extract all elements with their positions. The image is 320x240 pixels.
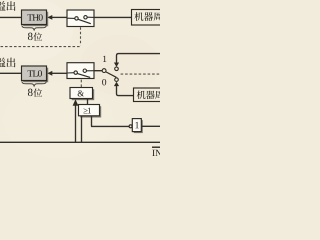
wire: switch S1 to machine cycle box xyxy=(94,16,132,18)
label: selector position 1 (counter, T0 pin) xyxy=(103,56,106,62)
label: overflow output (top, 溢出) xyxy=(0,1,15,11)
label: overflow output (middle, 溢出) xyxy=(0,58,15,68)
inverter U3 (1 with input bubble) on GATE line xyxy=(129,119,143,134)
box: machine cycle source (top, 机器周期) xyxy=(132,10,163,26)
wire with arrow: TR0 into AND gate xyxy=(73,99,79,142)
brace: TH0 is 8 bits xyxy=(22,25,47,30)
dashed wire: AND gate output controls switch S2 xyxy=(80,80,82,88)
wire with arrow into TH0 right side xyxy=(47,15,67,20)
register TL0 xyxy=(22,66,49,82)
wire with arrow into TL0 right side xyxy=(47,71,67,76)
switch S1: count enable for TH0 (controlled by TR1) xyxy=(67,10,94,27)
wire: TR0 / INT0 bottom rail xyxy=(0,141,160,143)
label: 8位 (TH0) xyxy=(28,32,42,40)
wire: switch S2 to C/T selector pivot xyxy=(94,70,102,72)
switch S2: count enable for TL0 (from AND gate) xyxy=(67,63,94,79)
wire: INT0 rail up into OR gate xyxy=(81,116,83,143)
register TH0 xyxy=(22,10,49,26)
AND gate U1 (&) xyxy=(70,88,94,101)
label: 8位 (TL0) xyxy=(28,88,42,96)
OR gate U2 (≥1) xyxy=(79,105,102,118)
wire: inverter output left then up into OR gate xyxy=(91,116,129,127)
wire: machine cycle up to selector contact 0 (arrow) xyxy=(114,78,134,96)
wire: TH0 overflow to left edge xyxy=(0,16,22,18)
wire: TL0 overflow to left edge xyxy=(0,72,22,74)
wire: T0 pin line down to selector contact 1 (arrow) xyxy=(114,54,160,71)
brace: TL0 is 8 bits xyxy=(22,81,47,86)
wire: OR gate output to AND gate xyxy=(87,99,89,105)
C/T selector pivot and blade xyxy=(102,69,116,78)
label: selector position 0 (timer, machine cycle) xyxy=(102,79,106,85)
label: INT0 pin (overlined, clipped at edge) xyxy=(152,147,162,156)
dashed control line C/T xyxy=(121,73,160,75)
wire: GATE from right edge to inverter xyxy=(141,125,160,127)
box: machine cycle source (bottom, 机器周期) xyxy=(134,88,164,102)
dashed control line TR1 to switch S1 xyxy=(0,27,81,46)
